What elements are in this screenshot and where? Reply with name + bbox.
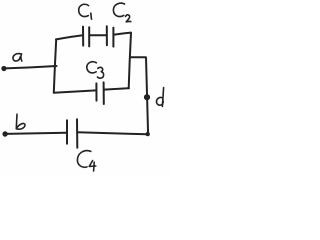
- label a: [13, 54, 22, 61]
- node a: [1, 66, 6, 71]
- capacitor C4: [66, 120, 68, 143]
- label C3: [87, 62, 104, 79]
- wire between C1 and C2: [89, 34, 106, 36]
- node d: [144, 94, 150, 100]
- wire bottom branch left segment: [54, 90, 96, 92]
- wire a to left vertical: [5, 66, 57, 68]
- wire stub from box to node d vertical: [131, 56, 146, 58]
- wire b to C4: [6, 133, 67, 134]
- wire left vertical of parallel box: [54, 40, 56, 93]
- wire right vertical of parallel box: [129, 33, 131, 88]
- wire top branch right segment: [114, 33, 131, 35]
- label d: [156, 88, 163, 107]
- wire bottom branch right segment: [104, 88, 129, 89]
- label C2: [113, 3, 130, 22]
- node b: [2, 131, 7, 136]
- wire C4 to right corner: [78, 132, 148, 134]
- label C1: [79, 4, 92, 19]
- capacitor C3: [95, 83, 97, 100]
- junction corner blob: [146, 132, 150, 136]
- label C4: [77, 151, 95, 171]
- capacitor C2: [106, 26, 108, 45]
- capacitor C1: [82, 27, 84, 46]
- wire vertical through node d: [146, 58, 148, 134]
- wire top branch left segment: [56, 35, 83, 39]
- label b: [16, 114, 25, 129]
